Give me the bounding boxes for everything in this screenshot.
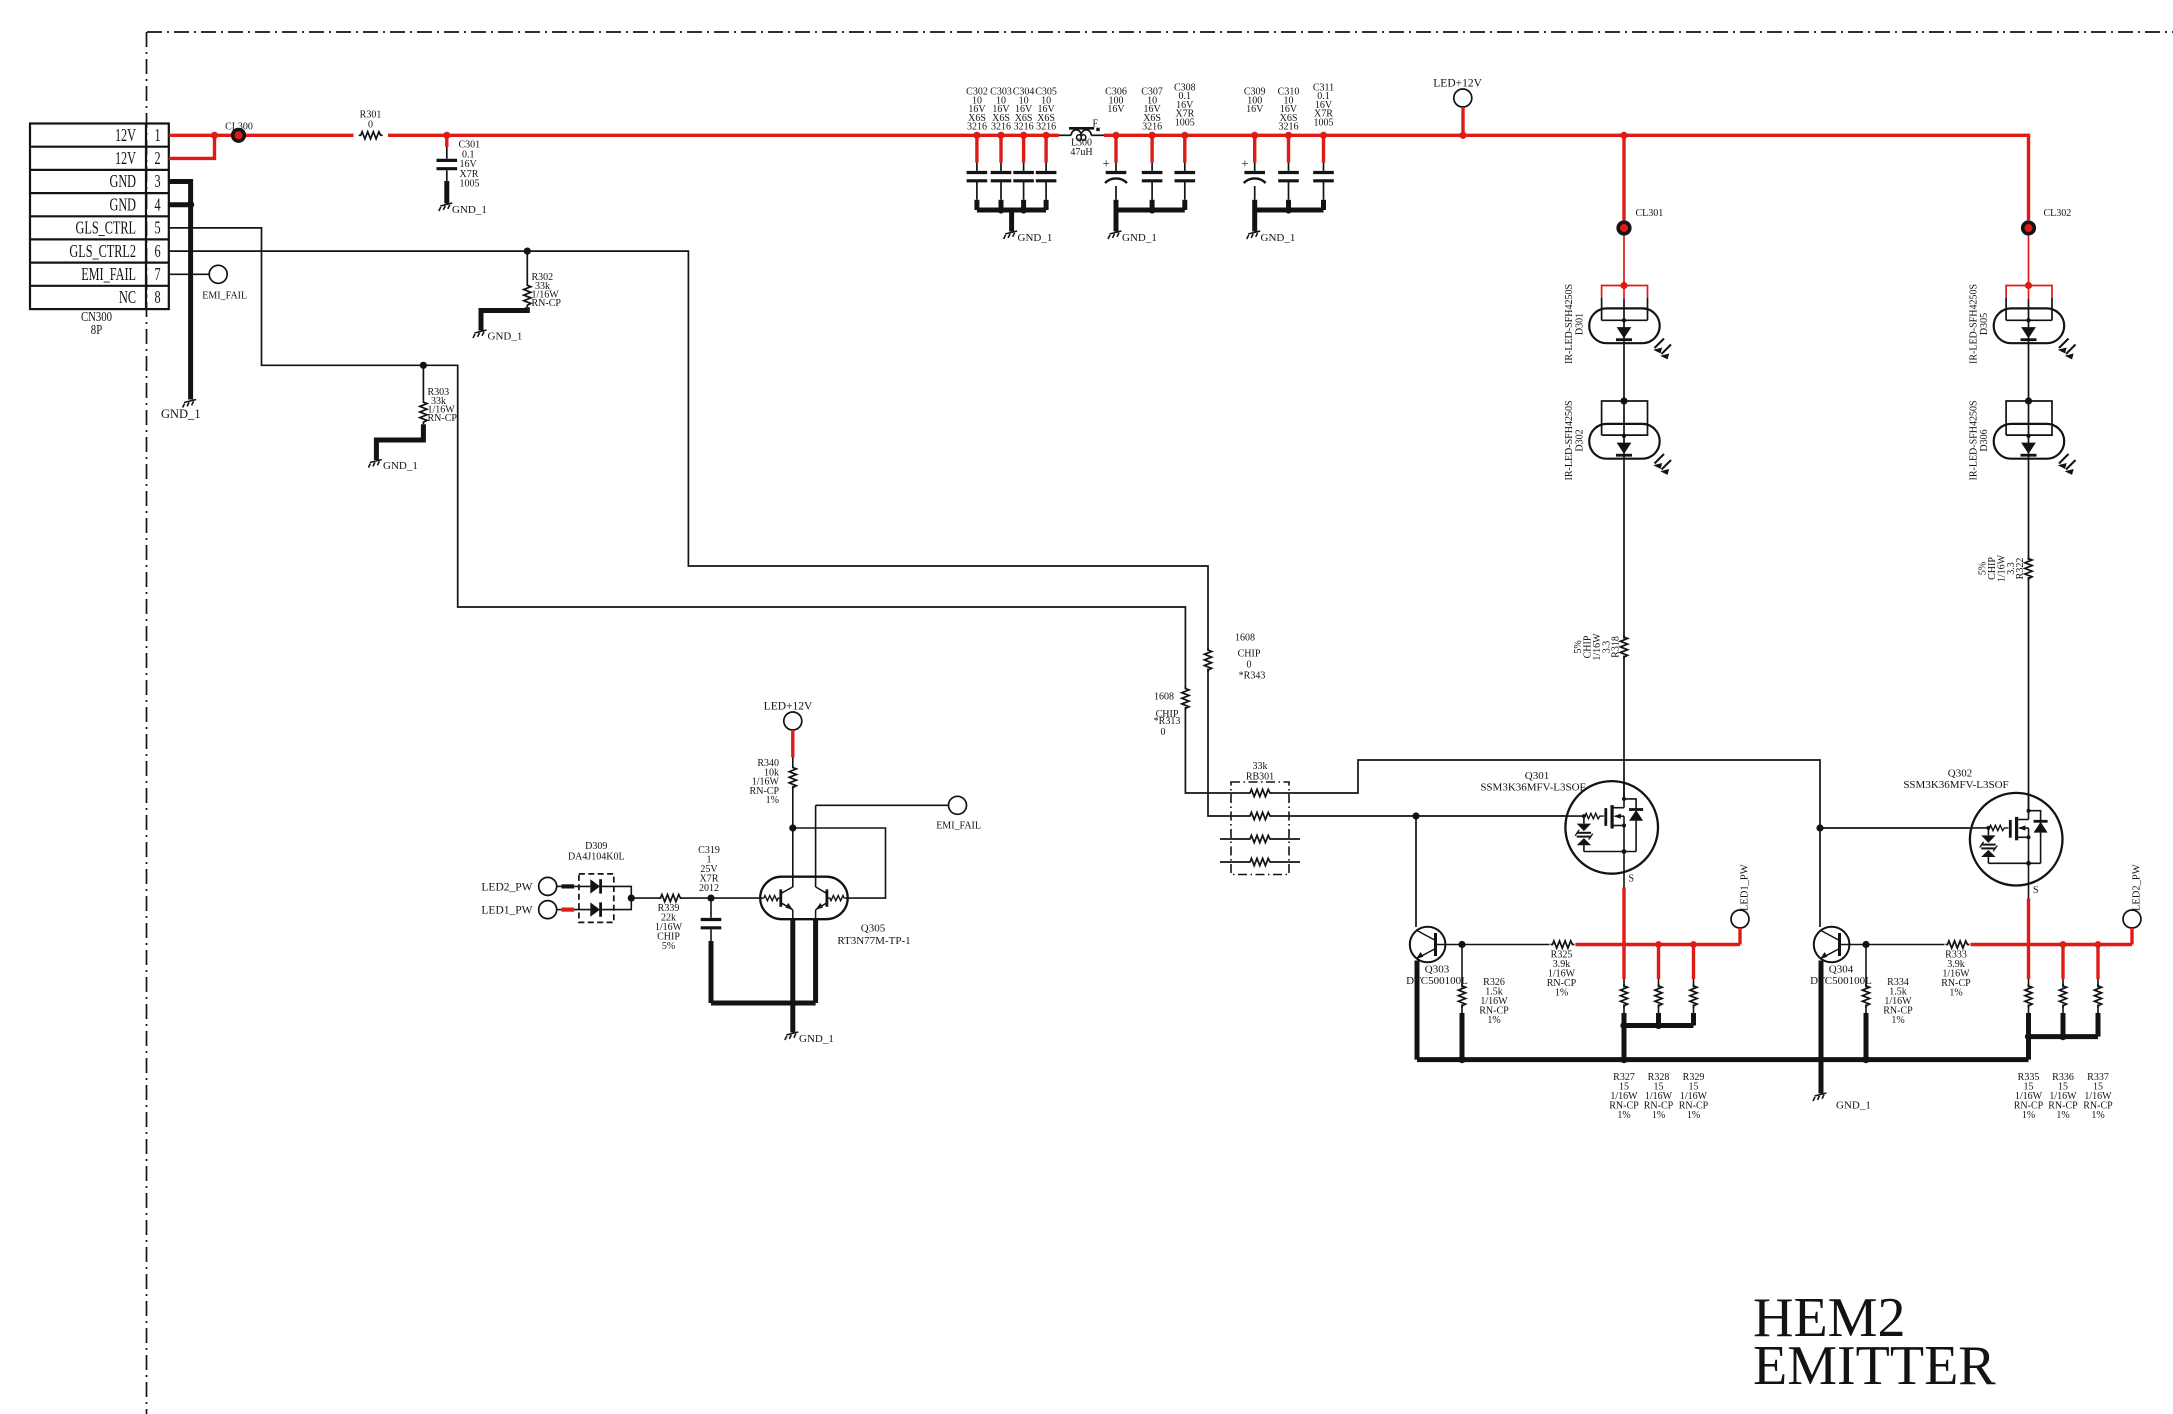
terminal EMI_FAIL right (949, 796, 967, 814)
svg-text:1%: 1% (1652, 1110, 1665, 1121)
wire Q304 emitter thick to ground (1819, 961, 1824, 1094)
capacitor C301 0.1 16V X7R 1005 (445, 135, 448, 147)
ground GND_1 at C301 (439, 203, 453, 211)
svg-text:3216: 3216 (1014, 122, 1034, 133)
wire thin red CL301 to D301 (1623, 236, 1625, 299)
svg-text:GND: GND (110, 172, 136, 192)
wire D301 to D302 (1623, 343, 1625, 401)
node junction Q304 base R334 tap (1862, 941, 1869, 948)
wire 12V pin2 red (169, 135, 215, 158)
ground GND_1 group3 (1247, 231, 1261, 239)
svg-text:12V: 12V (115, 126, 136, 146)
svg-text:1%: 1% (1687, 1110, 1700, 1121)
svg-text:Q305: Q305 (861, 923, 886, 935)
svg-text:CL300: CL300 (225, 121, 253, 132)
svg-text:D301: D301 (1575, 313, 1586, 335)
capacitor C310 (1278, 173, 1299, 181)
svg-text:8: 8 (154, 288, 160, 308)
svg-text:F: F (1093, 118, 1099, 129)
svg-text:1: 1 (154, 126, 160, 146)
svg-text:GLS_CTRL2: GLS_CTRL2 (69, 242, 136, 262)
svg-text:GND: GND (110, 195, 136, 215)
svg-text:1%: 1% (766, 795, 779, 806)
wire ground bus group1 (977, 200, 1046, 232)
diode pair D309 DA4J104K0L (579, 874, 614, 923)
wire red drop to CL301 (1622, 135, 1625, 220)
wire R343 to RB301 row2 (1208, 669, 1236, 817)
svg-text:3: 3 (154, 172, 160, 192)
svg-text:GND_1: GND_1 (383, 460, 418, 472)
transistor Q302 SSM3K36MFV-L3SOF MOSFET (1970, 793, 2063, 886)
sheet border dash-dot top (147, 31, 2173, 33)
svg-text:D306: D306 (1979, 429, 1990, 451)
resistor R313 0 (1182, 687, 1189, 711)
svg-text:GND_1: GND_1 (452, 204, 487, 216)
node junction D309 output (628, 895, 635, 902)
resistor R329 15 (1693, 979, 1695, 988)
svg-text:3216: 3216 (1142, 122, 1162, 133)
wire R322 to Q302 drain (2028, 577, 2030, 811)
svg-text:S: S (2033, 885, 2039, 896)
wire RB301 row2 to Q301 gate (1284, 815, 1566, 817)
wire D306 to R322 (2028, 459, 2030, 561)
wire Q305 left collector (792, 828, 794, 887)
transistor Q305 RT3N77M-TP-1 dual (760, 877, 848, 920)
resistor R325 3.9k (1551, 941, 1575, 948)
wire Q302 source to S (2028, 884, 2030, 899)
wire red stub R328 (1657, 945, 1660, 980)
svg-text:1%: 1% (2091, 1110, 2104, 1121)
wire red stub R329 (1692, 945, 1695, 980)
capacitor C311 (1313, 173, 1334, 181)
svg-text:DA4J104K0L: DA4J104K0L (568, 852, 625, 863)
IR LED D306 package (2006, 401, 2052, 435)
svg-text:1%: 1% (1949, 988, 1962, 999)
svg-text:5: 5 (154, 218, 160, 238)
svg-text:SSM3K36MFV-L3SOF: SSM3K36MFV-L3SOF (1903, 779, 2008, 791)
ground GND_1 at Q305 (785, 1032, 799, 1040)
resistor R318 3.3 (1620, 635, 1627, 659)
diode D309 element bottom (574, 909, 590, 911)
svg-text:Q304: Q304 (1829, 964, 1854, 976)
svg-text:Q302: Q302 (1948, 768, 1972, 780)
resistor R337 15 (2097, 979, 2099, 988)
ferrite bead CL301 (1616, 220, 1631, 235)
terminal LED2_PW (539, 877, 557, 895)
svg-text:+: + (1103, 156, 1110, 171)
svg-text:CHIP: CHIP (1238, 649, 1261, 660)
resistor RB301 element 2 (1236, 815, 1248, 817)
resistor R339 22k (631, 897, 658, 899)
terminal LED+12V at R340 (784, 712, 802, 730)
wire ground bus group2 (1116, 200, 1185, 232)
svg-text:EMI_FAIL: EMI_FAIL (202, 291, 247, 302)
svg-text:7: 7 (154, 265, 160, 285)
svg-text:LED1_PW: LED1_PW (481, 905, 532, 917)
svg-text:*R313: *R313 (1154, 716, 1181, 727)
wire ground bus group3 (1255, 200, 1324, 232)
wire thick R327-R329 link (1624, 1013, 1694, 1060)
wire EMI_FAIL link (816, 804, 949, 806)
svg-text:0: 0 (368, 120, 373, 131)
svg-text:LED1_PW: LED1_PW (1740, 864, 1751, 911)
resistor RB301 element 3 unused (1220, 838, 1248, 840)
svg-text:GND_1: GND_1 (1836, 1100, 1871, 1112)
resistor RB301 element 1 (1236, 792, 1248, 794)
node junction C319 tap (707, 895, 714, 902)
svg-text:1%: 1% (2022, 1110, 2035, 1121)
svg-text:D305: D305 (1979, 313, 1990, 335)
resistor R326 1.5k (1461, 945, 1463, 988)
svg-text:GND_1: GND_1 (161, 407, 201, 421)
wire stub black LED2 (561, 884, 574, 888)
resistor RB301 element 4 unused (1220, 861, 1248, 863)
svg-text:GLS_CTRL: GLS_CTRL (76, 218, 136, 238)
node junction pin1/pin2 (211, 132, 218, 139)
wire thin red CL302 to D305 (2028, 236, 2030, 299)
svg-text:3216: 3216 (991, 122, 1011, 133)
svg-text:16V: 16V (1246, 104, 1264, 115)
svg-text:8P: 8P (91, 322, 102, 338)
svg-text:1608: 1608 (1154, 692, 1174, 703)
wire thick R335-R337 link (2029, 1013, 2099, 1060)
wire R313 to RB301 row1 (1185, 707, 1236, 793)
svg-text:0: 0 (1161, 727, 1166, 738)
IR-LED D301 SFH4250S body (1589, 308, 1671, 361)
svg-text:*R343: *R343 (1239, 671, 1266, 682)
connector CN300 8P outline (30, 124, 169, 310)
svg-text:RB301: RB301 (1246, 772, 1274, 783)
svg-text:IR-LED-SFH4250S: IR-LED-SFH4250S (1564, 284, 1575, 364)
svg-text:IR-LED-SFH4250S: IR-LED-SFH4250S (1969, 400, 1980, 480)
svg-text:1%: 1% (1617, 1110, 1630, 1121)
transistor Q303 DTC500100L (1410, 927, 1462, 963)
ferrite bead CL300 (231, 128, 246, 143)
connector CN300 pin numbers 1-8 (154, 126, 160, 308)
svg-text:R318: R318 (1611, 636, 1622, 658)
svg-text:1%: 1% (2056, 1110, 2069, 1121)
resistor R335 15 (2028, 979, 2030, 988)
wire red stub R340 (791, 730, 794, 758)
wire Q301 source to S (1623, 872, 1625, 887)
capacitor C306 polarized (1105, 173, 1127, 184)
svg-text:2: 2 (154, 149, 160, 169)
svg-text:3216: 3216 (1036, 122, 1056, 133)
ground GND_1 at R302 (473, 330, 487, 338)
svg-text:RN-CP: RN-CP (428, 413, 458, 424)
node junction Q303 collector tap (1412, 812, 1419, 819)
svg-text:5%: 5% (662, 941, 675, 952)
resistor R302 33k (526, 251, 528, 284)
resistor R327 15 (1623, 979, 1625, 988)
transistor Q304 DTC500100L (1814, 927, 1866, 963)
svg-text:12V: 12V (115, 149, 136, 169)
svg-text:Q301: Q301 (1525, 770, 1549, 782)
wire RB301 row1 to Q302 gate (1284, 760, 1970, 828)
svg-text:1608: 1608 (1235, 633, 1255, 644)
label stacks R327 R328 R329 (1609, 1072, 1708, 1121)
wire Q303 base to R325 (1462, 944, 1550, 946)
node junction R303 tap (420, 362, 427, 369)
IR-LED D302 SFH4250S body (1589, 424, 1671, 477)
svg-text:CL301: CL301 (1636, 208, 1664, 219)
terminal LED2_PW (2123, 910, 2141, 928)
wire red LED2 bus (1971, 943, 2133, 946)
IR LED D302 package (1602, 401, 1648, 435)
resistor R336 15 (2062, 979, 2064, 988)
svg-text:GND_1: GND_1 (488, 331, 523, 343)
inductor L300 47uH (1059, 134, 1071, 136)
wire Q303 emitter thick (1415, 961, 1420, 1060)
connector CN300 pin name labels (69, 126, 136, 308)
svg-text:EMI_FAIL: EMI_FAIL (936, 821, 981, 832)
resistor R322 3.3 (2025, 557, 2032, 581)
wire GLS_CTRL2 pin6 (169, 250, 528, 252)
svg-text:1%: 1% (1487, 1015, 1500, 1026)
ground GND_1 group2 (1108, 231, 1122, 239)
svg-text:47uH: 47uH (1070, 147, 1092, 158)
wire Q304 base to R333 (1866, 944, 1945, 946)
terminal LED1_PW (539, 901, 557, 919)
svg-text:LED+12V: LED+12V (764, 701, 813, 713)
ground GND_1 group1 (1004, 231, 1018, 239)
ground GND_1 main (1813, 1093, 1827, 1101)
capacitor C307 (1142, 173, 1163, 181)
svg-text:6: 6 (154, 242, 160, 262)
svg-text:33k: 33k (1253, 761, 1268, 772)
wire red corner drop to CL302 (2027, 134, 2030, 221)
svg-text:GND_1: GND_1 (1261, 232, 1296, 244)
svg-text:D309: D309 (585, 841, 607, 852)
node junction GND pins (187, 201, 194, 208)
wire Q305 emitters thick (790, 918, 795, 1003)
label stacks R335 R336 R337 (2014, 1072, 2113, 1121)
svg-text:NC: NC (119, 288, 136, 308)
IR LED D301 package top red (1602, 286, 1648, 299)
wire Q303 collector (1415, 816, 1417, 927)
capacitor C308 (1175, 173, 1196, 181)
svg-text:GND_1: GND_1 (1018, 232, 1053, 244)
capacitor C319 1 25V X7R 2012 (710, 898, 712, 918)
capacitor C304 (1013, 173, 1034, 181)
wire D305 to D306 (2028, 343, 2030, 401)
resistor R301 0 (359, 132, 383, 139)
svg-text:CL302: CL302 (2044, 208, 2072, 219)
wire red stub R337 (2096, 945, 2099, 980)
svg-text:3216: 3216 (1279, 122, 1299, 133)
diode D309 element top (574, 885, 590, 887)
wire red stub R336 (2061, 945, 2064, 980)
capacitor C303 (991, 173, 1012, 181)
ground GND_1 at connector (183, 400, 197, 408)
svg-text:LED+12V: LED+12V (1433, 78, 1482, 90)
svg-text:16V: 16V (1107, 104, 1125, 115)
transistor Q301 SSM3K36MFV-L3SOF MOSFET (1565, 781, 1658, 874)
svg-text:EMITTER: EMITTER (1753, 1335, 1996, 1397)
wire R318 to Q301 drain (1623, 656, 1625, 800)
IR-LED D306 SFH4250S body (1994, 424, 2076, 477)
connector CN300 reference label (81, 309, 112, 338)
svg-text:4: 4 (154, 195, 160, 215)
resistor R340 10k (792, 758, 794, 768)
terminal LED+12V top (1454, 89, 1472, 107)
IR-LED D305 SFH4250S body (1994, 308, 2076, 361)
svg-text:RN-CP: RN-CP (532, 298, 562, 309)
capacitor C302 (967, 173, 988, 181)
capacitor bank C302-C305 (977, 135, 1324, 162)
wire red Q301 source drop (1622, 888, 1625, 980)
svg-text:SSM3K36MFV-L3SOF: SSM3K36MFV-L3SOF (1480, 782, 1585, 794)
svg-text:Q303: Q303 (1425, 964, 1450, 976)
wire red LED1 bus (1576, 943, 1741, 946)
svg-text:LED2_PW: LED2_PW (2132, 864, 2143, 911)
terminal EMI_FAIL (209, 265, 227, 283)
wire GND pins 3,4 thick (169, 182, 191, 400)
resistor network RB301 33k dashed box (1231, 782, 1289, 875)
resistor R334 1.5k (1865, 945, 1867, 988)
wire GLS_CTRL pin5 (169, 228, 424, 365)
svg-text:2012: 2012 (699, 883, 719, 894)
svg-text:LED2_PW: LED2_PW (481, 882, 532, 894)
node junction C301 tap (443, 132, 450, 139)
node junction Q304 collector tap (1816, 824, 1823, 831)
node junction Q303 base R326 tap (1458, 941, 1465, 948)
wire red Q302 source drop (2027, 899, 2030, 980)
svg-text:1%: 1% (1555, 988, 1568, 999)
wire stub red LED1 (561, 907, 574, 911)
resistor R303 33k (422, 365, 424, 400)
svg-text:0: 0 (1247, 660, 1252, 671)
svg-text:D302: D302 (1575, 429, 1586, 451)
svg-text:GND_1: GND_1 (799, 1033, 834, 1045)
node junction R340 Q305 collector (789, 824, 796, 831)
svg-text:1005: 1005 (1314, 117, 1334, 128)
wire EMI_FAIL pin7 (169, 273, 209, 275)
svg-text:RT3N77M-TP-1: RT3N77M-TP-1 (837, 935, 910, 947)
resistor R333 3.9k (1946, 941, 1970, 948)
IR LED D305 package top red (2006, 286, 2052, 299)
svg-text:S: S (1629, 874, 1635, 885)
svg-text:IR-LED-SFH4250S: IR-LED-SFH4250S (1564, 400, 1575, 480)
svg-text:IR-LED-SFH4250S: IR-LED-SFH4250S (1969, 284, 1980, 364)
svg-text:1005: 1005 (1175, 117, 1195, 128)
sheet border dash-dot left (146, 32, 148, 1414)
ferrite bead CL302 (2021, 220, 2036, 235)
ground GND_1 at R303 (368, 460, 382, 468)
capacitor C309 polarized (1244, 173, 1266, 184)
resistor R328 15 (1658, 979, 1660, 988)
svg-text:GND_1: GND_1 (1122, 232, 1157, 244)
svg-text:R322: R322 (2015, 558, 2026, 580)
resistor R343 0 (1204, 648, 1211, 672)
capacitor bank value labels (966, 83, 1334, 133)
wire Q304 collector (1819, 828, 1821, 927)
terminal LED1_PW (1731, 910, 1749, 928)
svg-text:+: + (1241, 156, 1248, 171)
svg-text:1%: 1% (1891, 1015, 1904, 1026)
capacitor C305 (1036, 173, 1057, 181)
svg-text:1005: 1005 (460, 179, 480, 190)
wire Q305 right base loop (793, 828, 886, 898)
wire 12V pin1 red rail (169, 134, 2029, 137)
svg-text:EMI_FAIL: EMI_FAIL (81, 265, 136, 285)
node junction R302 tap (524, 248, 531, 255)
wire main ground bus (1417, 1057, 2029, 1062)
wire D302 to R318 (1623, 459, 1625, 639)
svg-text:3216: 3216 (967, 122, 987, 133)
